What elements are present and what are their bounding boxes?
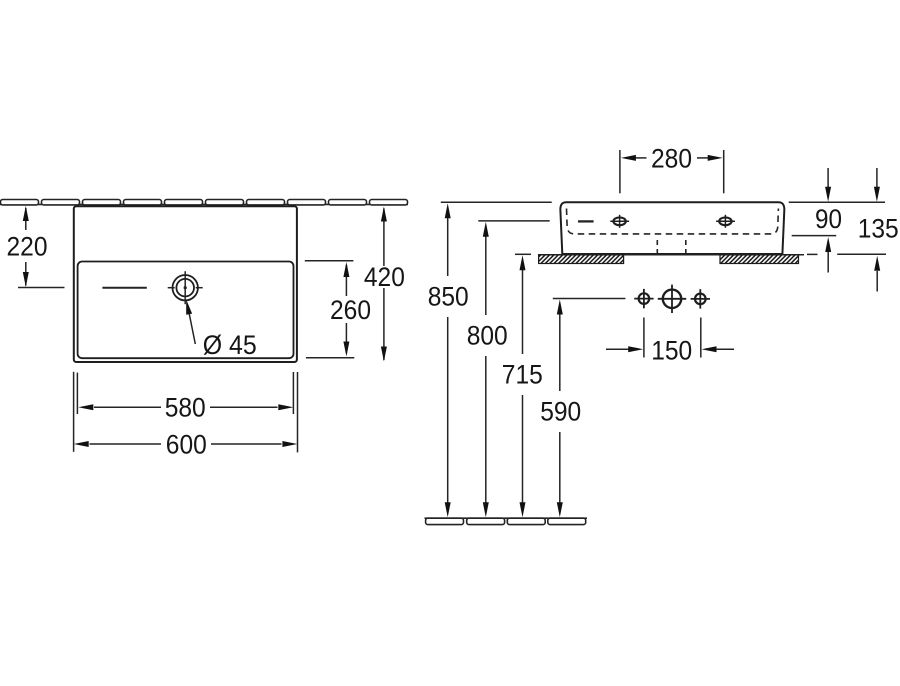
dim 150 ext line right xyxy=(700,318,702,358)
dim 600 arrow left xyxy=(74,441,89,447)
dim 600 line right xyxy=(211,443,282,445)
leader line Ø45 xyxy=(188,305,196,344)
svg-text:220: 220 xyxy=(7,232,48,262)
tap hole left (oval) xyxy=(610,215,629,228)
dim 715 top ext line xyxy=(515,253,531,255)
dim 150 line right xyxy=(716,348,734,350)
dim 90 bottom arrow xyxy=(825,237,831,273)
svg-text:580: 580 xyxy=(165,393,206,423)
dim 260 bottom extension line xyxy=(306,357,354,359)
svg-text:800: 800 xyxy=(467,321,508,351)
tap landing mark (front) xyxy=(578,220,594,222)
svg-text:260: 260 xyxy=(330,295,371,325)
wall hole big center xyxy=(658,285,686,313)
dim 590 ext line xyxy=(553,298,626,300)
dim 420 line upper xyxy=(383,209,385,267)
ext line 600 left xyxy=(73,372,75,452)
floor segments xyxy=(426,518,586,524)
dim 280 arrow right xyxy=(708,155,723,161)
basin inner hidden edge (dashed) xyxy=(567,209,779,234)
ext line 580 right xyxy=(292,372,294,414)
dim 150 ext line left xyxy=(643,318,645,358)
dim 90 top arrow xyxy=(825,168,831,202)
dim 590 vertical xyxy=(540,300,581,518)
dim 800 top ext line xyxy=(478,220,549,222)
dim 220 line lower xyxy=(25,262,27,286)
mounting line xyxy=(538,254,804,256)
dim 580 line left xyxy=(94,406,161,408)
dim 135 top arrow xyxy=(874,168,880,202)
dim 220 line upper xyxy=(25,208,27,230)
dim 150 line left xyxy=(606,348,629,350)
dim 850 vertical xyxy=(428,203,469,517)
dim 220 arrow up xyxy=(23,206,29,221)
dim 220 extension line (drain level, left) xyxy=(18,287,65,289)
dim 420 arrow up xyxy=(381,207,387,222)
svg-text:420: 420 xyxy=(364,262,405,292)
svg-text:90: 90 xyxy=(815,204,842,234)
dim 260 line upper xyxy=(345,265,347,296)
dim 220 arrow down xyxy=(23,272,29,287)
leader arrowhead xyxy=(186,300,192,315)
svg-text:715: 715 xyxy=(502,359,543,389)
dim 280 line right xyxy=(697,157,708,159)
ext line 580 left xyxy=(76,373,78,414)
drain circle outer xyxy=(173,275,198,300)
wall hole small right xyxy=(691,289,710,308)
dashed continuation right xyxy=(807,253,818,255)
dim 600 arrow right xyxy=(282,441,297,447)
dim 150 arrow right xyxy=(702,346,717,352)
dim 260 line lower xyxy=(345,323,347,353)
dim 135 bottom ext line xyxy=(837,253,886,255)
svg-text:850: 850 xyxy=(428,282,469,312)
wall hatch bar right xyxy=(720,255,799,264)
dim 280 line left xyxy=(636,157,647,159)
basin front outline xyxy=(560,202,784,254)
dim 280 ext line left xyxy=(619,150,621,193)
svg-text:280: 280 xyxy=(651,143,692,173)
dim 420 line lower xyxy=(383,288,385,360)
basin outer rect (top view) xyxy=(74,206,297,362)
drain outline dashed left xyxy=(656,240,658,254)
dim 90 bottom ext line xyxy=(792,235,837,237)
dim 580 arrow right xyxy=(278,404,293,410)
drain tick left xyxy=(168,287,175,289)
drain center dot xyxy=(184,286,187,289)
svg-text:Ø 45: Ø 45 xyxy=(203,330,257,360)
floor line xyxy=(425,517,588,519)
wall line (continuous) xyxy=(0,203,408,205)
top level ext line right xyxy=(789,201,885,203)
tap hole right (oval) xyxy=(716,215,735,228)
dim 580 line right xyxy=(210,406,278,408)
dim 260 arrow down xyxy=(343,342,349,357)
wall brick segments xyxy=(1,200,408,205)
ext line 600 right xyxy=(297,372,299,452)
svg-text:135: 135 xyxy=(858,214,899,244)
dim 135 bottom arrow xyxy=(874,256,880,292)
dim 715 vertical xyxy=(502,255,543,517)
dim 260 top extension line xyxy=(305,260,354,262)
dim 280 ext line right xyxy=(723,150,725,193)
dim 850 top ext line xyxy=(441,201,552,203)
dim 420 arrow down xyxy=(381,347,387,362)
dim 150 arrow left xyxy=(628,346,643,352)
drain circle inner xyxy=(176,279,194,297)
drain outline dashed right xyxy=(685,240,687,254)
svg-text:590: 590 xyxy=(540,397,581,427)
dim 800 vertical xyxy=(467,222,508,518)
dim 580 arrow left xyxy=(78,404,93,410)
wall hatch bar left xyxy=(539,255,624,264)
dim 280 arrow left xyxy=(621,155,636,161)
svg-text:600: 600 xyxy=(166,429,207,459)
basin inner rect (top view) xyxy=(78,262,294,359)
drain tick right xyxy=(196,287,203,289)
wall hole small left xyxy=(634,289,653,308)
drain centerline vertical xyxy=(184,271,186,304)
tap landing line xyxy=(102,287,146,289)
svg-text:150: 150 xyxy=(651,335,692,365)
dim 260 arrow up xyxy=(343,262,349,277)
dim 600 line left xyxy=(90,443,162,445)
